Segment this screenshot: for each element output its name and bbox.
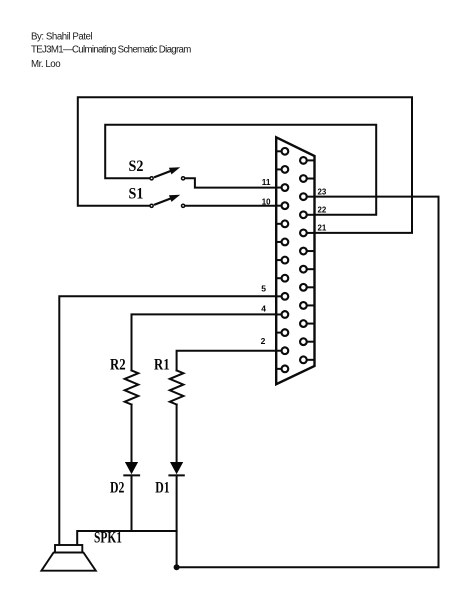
J1 pin 5 (left column) xyxy=(276,293,288,300)
J1 pin 3 (left column) xyxy=(276,329,288,336)
svg-text:21: 21 xyxy=(318,223,327,233)
J1 pin 14 (right column) xyxy=(300,356,314,363)
wire: R1 bottom to diode D1 xyxy=(176,405,178,463)
J1 pin 11 (left column) xyxy=(276,184,288,191)
svg-text:23: 23 xyxy=(318,186,327,196)
J1 pin 8 (left column) xyxy=(276,239,288,246)
svg-text:R1: R1 xyxy=(154,357,170,374)
J1 pin 18 (right column) xyxy=(300,284,314,291)
J1 pin 2 (left column) xyxy=(276,347,288,354)
J1 pin 4 (left column) xyxy=(276,311,288,318)
wire: pin 5 to speaker SPK1 left terminal xyxy=(59,296,276,545)
J1 pin 21 (right column) xyxy=(300,230,314,237)
J1 pin 9 (left column) xyxy=(276,220,288,227)
J1 pin 24 (right column) xyxy=(300,175,314,182)
svg-text:10: 10 xyxy=(262,197,271,207)
J1 pin 12 (left column) xyxy=(276,166,288,173)
J1 pin 20 (right column) xyxy=(300,248,314,255)
speaker SPK1 xyxy=(41,530,122,571)
J1 pin 6 (left column) xyxy=(276,275,288,282)
J1 pin 10 (left column) xyxy=(276,202,288,209)
svg-text:D1: D1 xyxy=(155,480,169,497)
wire: pin 4 to resistor R2 top xyxy=(132,314,277,370)
svg-text:D2: D2 xyxy=(110,480,125,497)
J1 pin 17 (right column) xyxy=(300,302,314,309)
diode D2 xyxy=(110,462,139,497)
svg-text:TEJ3M1—Culminating Schematic D: TEJ3M1—Culminating Schematic Diagram xyxy=(31,44,191,55)
wire: R2 bottom to diode D2 xyxy=(131,405,133,463)
J1 pin 1 (left column) xyxy=(276,366,288,373)
connector J1 (DB25) outline xyxy=(276,137,314,384)
wire: pin 23 to bottom rail junction xyxy=(177,197,439,568)
svg-text:By: Shahil Patel: By: Shahil Patel xyxy=(31,31,92,42)
wire: pin 21 outer loop to switch S1 left contact xyxy=(78,97,412,233)
J1 pin 25 (right column) xyxy=(300,157,314,164)
switch S2 xyxy=(129,158,185,180)
svg-text:22: 22 xyxy=(318,205,327,215)
J1 pin 23 (right column) xyxy=(300,193,314,200)
wire: speaker bus (speaker right terminal to diode cathodes) xyxy=(77,531,176,545)
resistor R2 xyxy=(110,357,138,405)
wire: D2 cathode to speaker bus xyxy=(131,475,133,531)
diode D1 xyxy=(155,462,184,497)
title block text xyxy=(31,31,191,70)
junction dot at bottom rail xyxy=(174,564,180,570)
svg-text:S1: S1 xyxy=(129,185,144,202)
svg-text:2: 2 xyxy=(261,336,266,346)
svg-text:R2: R2 xyxy=(110,357,126,374)
J1 pin 13 (left column) xyxy=(276,148,288,155)
switch S1 xyxy=(129,185,185,207)
wire: pin 22 inner loop to switch S2 left contact xyxy=(105,125,376,215)
wire: D1 cathode down to bottom rail junction xyxy=(176,475,178,567)
svg-text:4: 4 xyxy=(261,304,266,314)
wire: pin 2 to resistor R1 top xyxy=(177,351,277,371)
svg-text:5: 5 xyxy=(261,284,266,294)
svg-text:11: 11 xyxy=(262,177,271,187)
svg-text:Mr. Loo: Mr. Loo xyxy=(31,59,60,70)
J1 pin 7 (left column) xyxy=(276,257,288,264)
J1 pin 16 (right column) xyxy=(300,320,314,327)
svg-text:SPK1: SPK1 xyxy=(94,530,122,547)
wire: switch S2 right contact to pin 11 xyxy=(185,178,276,187)
wire: switch S1 right contact to pin 10 xyxy=(185,205,276,207)
J1 pin 19 (right column) xyxy=(300,266,314,273)
resistor R1 xyxy=(154,357,183,405)
svg-text:S2: S2 xyxy=(129,158,144,175)
J1 pin 22 (right column) xyxy=(300,211,314,218)
J1 pin 15 (right column) xyxy=(300,338,314,345)
